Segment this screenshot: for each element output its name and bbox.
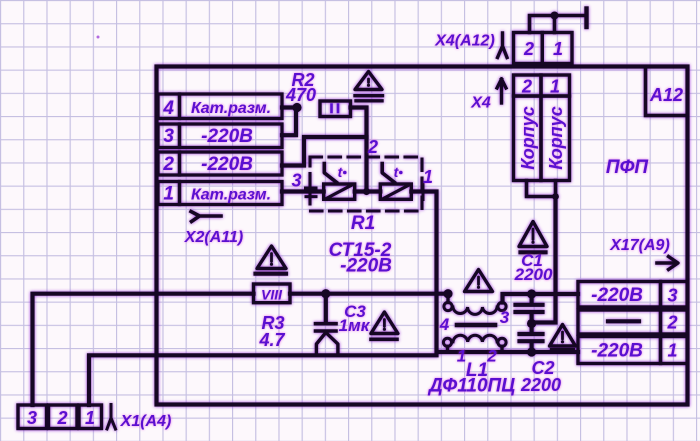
svg-text:R1: R1 xyxy=(351,213,375,234)
svg-text:470: 470 xyxy=(285,85,316,105)
inductor L1 core xyxy=(457,323,495,328)
svg-text:2: 2 xyxy=(521,77,532,97)
connector X2 row 4 cell xyxy=(158,94,180,119)
connector X1 cell 1 xyxy=(79,405,102,429)
wire row3 up to R2 node xyxy=(282,108,296,136)
svg-text:-220В: -220В xyxy=(201,126,253,147)
arrow X4 up xyxy=(500,84,503,103)
svg-text:4: 4 xyxy=(439,315,450,334)
warning triangle above C1 xyxy=(519,222,547,247)
connector X17 row 2 xyxy=(578,310,661,334)
connector X4 on-board: header cells xyxy=(514,75,542,96)
connector X1 plug fork symbol xyxy=(107,405,116,430)
warning triangle above L1 xyxy=(465,270,493,292)
svg-text:X1(A4): X1(A4) xyxy=(120,413,172,430)
wire R1 pin1 right then down to bottom rail xyxy=(411,192,531,353)
inductor L1 winding bottom xyxy=(443,338,451,346)
svg-text:4.7: 4.7 xyxy=(258,330,285,350)
wire L1 pin3 to C1 top node xyxy=(503,294,532,303)
svg-text:A12: A12 xyxy=(649,85,683,105)
connector X2 row 3 cell xyxy=(158,124,180,148)
L1 pin stubs xyxy=(446,298,449,303)
wire C1 node to connector row3 xyxy=(532,292,578,296)
svg-text:3: 3 xyxy=(163,126,174,147)
R2 power marks xyxy=(332,105,339,113)
wire row4 to R2 node xyxy=(282,105,297,109)
svg-text:ДФ110ПЦ: ДФ110ПЦ xyxy=(427,376,515,397)
svg-text:-220В: -220В xyxy=(201,154,253,175)
connector X2 row 1 cell xyxy=(158,182,180,205)
svg-text:VIII: VIII xyxy=(261,287,283,303)
wire R2 right then down to R1 pin2 node xyxy=(351,108,367,192)
box A12 xyxy=(646,67,688,116)
connector X17 row 1 xyxy=(578,337,661,364)
svg-text:3: 3 xyxy=(291,171,301,191)
svg-text:2: 2 xyxy=(162,154,174,175)
svg-text:3: 3 xyxy=(27,408,37,428)
connector X2 row 2 cell xyxy=(158,152,180,175)
node between C1 and C2 xyxy=(527,319,536,328)
node C1 top xyxy=(527,289,536,298)
capacitor C1 xyxy=(529,294,533,303)
connector X1 cell 3 xyxy=(18,405,47,429)
svg-text:1: 1 xyxy=(553,39,563,59)
wire X2 row1 to R1 pin3 xyxy=(282,189,324,193)
wire C1/C2 node to chassis bus xyxy=(532,197,556,323)
svg-text:Кат.разм.: Кат.разм. xyxy=(191,100,271,117)
svg-text:-220В: -220В xyxy=(340,256,392,277)
node at R2 left xyxy=(292,103,301,112)
svg-text:2200: 2200 xyxy=(520,375,561,395)
connector X2 plug fork symbol xyxy=(191,212,221,222)
svg-text:1: 1 xyxy=(550,77,560,97)
resistor R2 body xyxy=(320,101,351,117)
wire B from X1 pin1 up and right to L1 corner xyxy=(89,355,437,405)
connector X1 cell 2 xyxy=(49,405,78,429)
inductor L1 winding top xyxy=(444,302,452,310)
svg-text:2: 2 xyxy=(523,39,534,59)
svg-text:-220В: -220В xyxy=(591,341,643,362)
warning triangle near R3 xyxy=(257,246,286,269)
svg-text:4: 4 xyxy=(162,98,174,119)
svg-text:X4(A12): X4(A12) xyxy=(434,33,495,50)
svg-text:Корпус: Корпус xyxy=(546,106,566,169)
svg-text:X2(A11): X2(A11) xyxy=(184,229,243,246)
svg-text:2: 2 xyxy=(367,137,378,157)
svg-text:1: 1 xyxy=(667,341,677,361)
svg-text:3: 3 xyxy=(667,286,677,306)
main unit boundary box xyxy=(157,67,688,405)
svg-text:Кат.разм.: Кат.разм. xyxy=(191,187,271,204)
capacitor C3 feedthrough xyxy=(324,294,328,322)
svg-text:1мк: 1мк xyxy=(339,316,371,335)
warning triangle near C2 xyxy=(550,325,576,347)
connector X4 on-board: Корпус cells xyxy=(514,96,542,181)
wire row2 up and right to R2 output xyxy=(282,137,367,166)
R1 pin3 boundary marker xyxy=(306,180,317,197)
node C2 bottom xyxy=(527,347,536,356)
thermistor element left of R1 xyxy=(324,184,355,199)
resistor R3 body xyxy=(254,284,291,303)
svg-text:X4: X4 xyxy=(470,95,491,112)
svg-text:2: 2 xyxy=(56,408,67,428)
svg-text:-220В: -220В xyxy=(591,285,643,306)
svg-text:ПФП: ПФП xyxy=(606,157,649,178)
svg-text:1: 1 xyxy=(85,408,95,428)
connector X4(A12) mating half xyxy=(514,33,543,64)
svg-text:2200: 2200 xyxy=(514,265,553,284)
shield terminator bar xyxy=(584,9,588,28)
svg-text:3: 3 xyxy=(500,308,510,327)
wire A from X1 pin3 up and right through R3 xyxy=(33,294,254,405)
arrow X17 right xyxy=(657,261,674,265)
wire between R1 elements xyxy=(355,189,381,193)
thermistor element right of R1 xyxy=(380,184,411,199)
wire R3 to L1 pin4 xyxy=(290,292,448,296)
wire bottom rail to connector row1 xyxy=(532,350,578,354)
svg-text:Корпус: Корпус xyxy=(518,106,538,169)
connector X17 row 3 xyxy=(578,282,661,308)
node at L1 pin4 xyxy=(443,289,452,298)
svg-text:X17(A9): X17(A9) xyxy=(609,237,670,254)
node R1 pin2 xyxy=(363,188,370,195)
svg-text:1: 1 xyxy=(163,184,174,205)
chassis tie bar below Корпус cells xyxy=(527,181,556,197)
dash in X17 row2 xyxy=(608,319,639,323)
svg-text:2: 2 xyxy=(666,313,677,333)
R1 dashed enclosure xyxy=(310,157,422,211)
warning triangle near R2 xyxy=(355,72,382,90)
capacitor C2 xyxy=(529,324,533,333)
R1 pin1 boundary marker xyxy=(422,184,425,200)
node C3 top xyxy=(321,289,330,298)
warning triangle near C3 xyxy=(371,312,398,334)
svg-text:1: 1 xyxy=(423,167,433,187)
svg-text:1: 1 xyxy=(457,347,466,366)
wires from X4(A12) to shield terminator xyxy=(530,16,587,33)
connector X4(A12) plug fork symbol xyxy=(498,33,508,58)
